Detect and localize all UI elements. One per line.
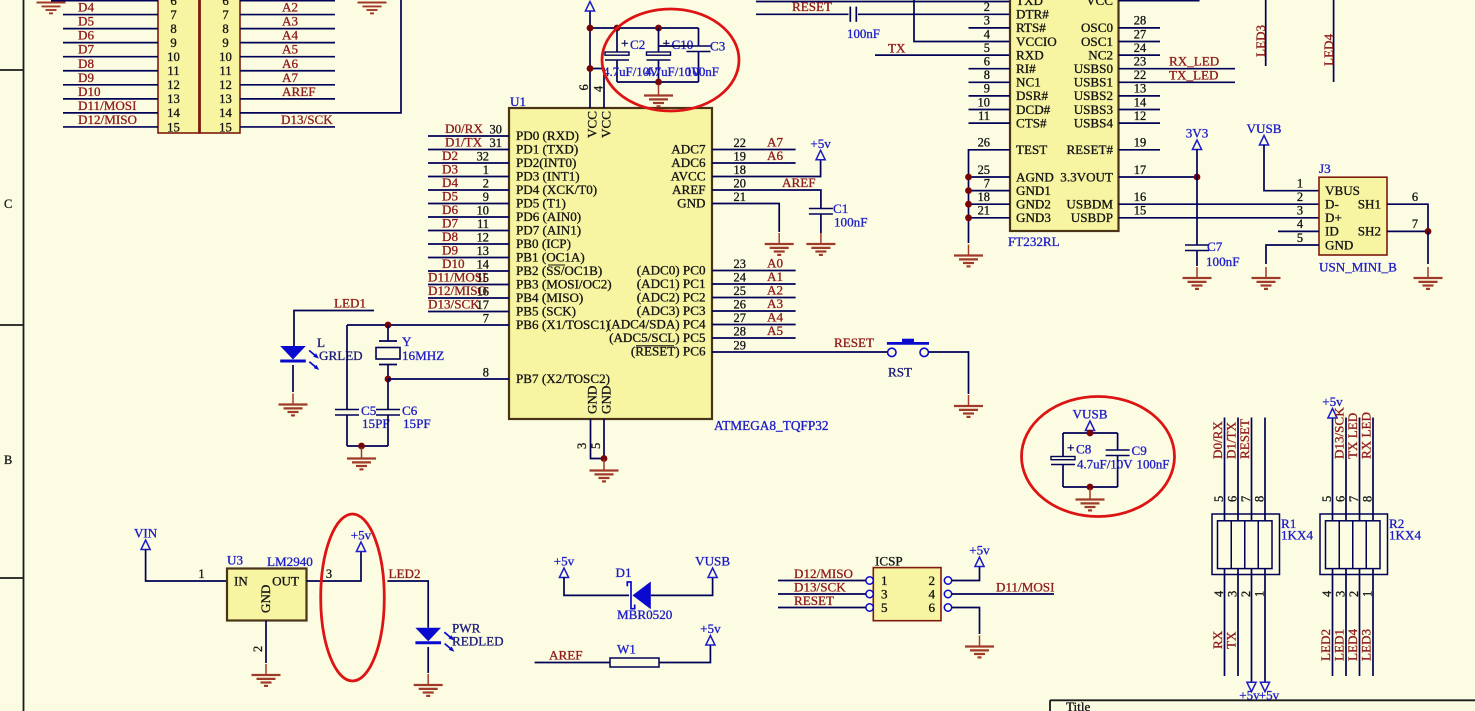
- svg-text:25: 25: [734, 284, 746, 298]
- svg-text:LED4: LED4: [1321, 34, 1336, 66]
- power +5v (U1 VCC, cut): [585, 2, 594, 12]
- connector P1 body (left half): [158, 0, 200, 133]
- wire R1 pin 5 top: [1224, 418, 1226, 521]
- svg-text:24: 24: [1134, 41, 1146, 55]
- svg-text:PB6 (X1/TOSC1): PB6 (X1/TOSC1): [516, 317, 610, 332]
- svg-text:D9: D9: [78, 70, 94, 85]
- svg-text:Title: Title: [1066, 699, 1090, 711]
- svg-text:19: 19: [1134, 136, 1146, 150]
- wire 3V3 to node: [1196, 149, 1198, 177]
- svg-text:16MHZ: 16MHZ: [402, 348, 444, 363]
- wire VUSB to VBUS: [1264, 145, 1319, 191]
- wire TEST to ground bus: [969, 150, 1011, 243]
- capacitor C7: [1185, 245, 1209, 251]
- wire C6 branch: [387, 379, 389, 410]
- ground (RST): [954, 395, 983, 417]
- wire R2 pin 7 top: [1359, 418, 1361, 521]
- ground (FT232): [954, 245, 983, 267]
- svg-text:15PF: 15PF: [403, 416, 431, 431]
- svg-text:13: 13: [219, 92, 232, 106]
- wire net D4: [63, 14, 158, 16]
- wire J3 GND: [1266, 245, 1319, 264]
- capacitor C3 horizontal tick and label: [659, 39, 726, 54]
- svg-text:+5v: +5v: [554, 554, 575, 569]
- wire net D12/MISO (U1 pin 16): [428, 297, 509, 299]
- svg-text:24: 24: [734, 271, 746, 285]
- wire stub FT232 USBS4: [1119, 122, 1161, 124]
- wire net LED3: [1265, 0, 1267, 66]
- svg-text:FT232RL: FT232RL: [1008, 234, 1060, 249]
- svg-text:17: 17: [1134, 163, 1146, 177]
- svg-text:7: 7: [483, 312, 489, 326]
- svg-text:VUSB: VUSB: [1073, 407, 1108, 422]
- svg-text:1: 1: [1253, 591, 1267, 597]
- capacitor values C8 C9: [1077, 458, 1169, 472]
- svg-text:9: 9: [984, 82, 990, 96]
- svg-text:REDLED: REDLED: [452, 634, 504, 649]
- svg-text:VCC: VCC: [1086, 0, 1113, 8]
- wire stub FT232 GND1: [969, 190, 1011, 192]
- LED PWR (REDLED): [415, 628, 454, 652]
- wire net A7: [240, 84, 335, 86]
- IC U2 FT232RL body: [1010, 0, 1119, 231]
- wire series cap to DTR#: [858, 13, 1010, 15]
- svg-text:8: 8: [984, 68, 990, 82]
- svg-text:3: 3: [1226, 591, 1240, 597]
- svg-text:8: 8: [1253, 496, 1267, 502]
- svg-text:USBDP: USBDP: [1071, 210, 1113, 225]
- regulator U3 body: [227, 569, 307, 621]
- svg-text:U3: U3: [227, 553, 243, 568]
- svg-text:AREF: AREF: [782, 175, 815, 190]
- svg-text:RESET: RESET: [792, 0, 832, 14]
- wire VIN to U3 IN: [146, 549, 227, 581]
- ground (J3 GND): [1252, 267, 1281, 289]
- wire C8 bottom: [1062, 465, 1064, 488]
- wire PB6 to crystal: [347, 324, 509, 326]
- wire R2 pin 8 top: [1372, 418, 1374, 521]
- svg-text:11: 11: [477, 217, 489, 231]
- svg-text:32: 32: [477, 150, 489, 164]
- svg-text:3: 3: [326, 567, 332, 581]
- svg-text:B: B: [4, 453, 12, 467]
- svg-text:D5: D5: [78, 14, 94, 29]
- wire net TX (FT232 RXD): [875, 54, 1010, 56]
- svg-text:30: 30: [490, 123, 502, 137]
- svg-text:ICSP: ICSP: [875, 554, 903, 569]
- svg-text:TX: TX: [1224, 631, 1239, 649]
- wire ICSP pin6 to ground: [952, 608, 980, 635]
- svg-text:3: 3: [1334, 591, 1348, 597]
- series capacitor 100nF (RESET): [850, 7, 856, 22]
- power +5v (AVCC): [816, 150, 825, 160]
- svg-text:1: 1: [1297, 177, 1303, 191]
- junction: [1194, 174, 1201, 181]
- wire net D5: [63, 28, 158, 30]
- wire net A2: [240, 14, 335, 16]
- svg-text:ATMEGA8_TQFP32: ATMEGA8_TQFP32: [714, 418, 829, 433]
- svg-text:3: 3: [1297, 204, 1303, 218]
- wire C2 bottom: [616, 60, 618, 82]
- wire stub FT232 CTS#: [969, 122, 1011, 124]
- wire AREF to W1: [535, 662, 610, 664]
- svg-text:U1: U1: [510, 94, 526, 109]
- svg-text:2: 2: [984, 0, 990, 14]
- wire D1 to VUSB: [651, 577, 713, 595]
- power +5v down (R1 pin 2): [1247, 682, 1256, 692]
- wire U1 GND pin 5: [603, 419, 605, 459]
- wire R1 pin 7 top: [1251, 418, 1253, 521]
- svg-text:10: 10: [477, 204, 489, 218]
- svg-text:RESET: RESET: [794, 593, 834, 608]
- svg-text:1: 1: [483, 163, 489, 177]
- svg-text:1: 1: [1361, 591, 1375, 597]
- ground (U3): [252, 664, 281, 686]
- svg-text:10: 10: [978, 95, 990, 109]
- svg-text:6: 6: [928, 600, 935, 615]
- power +5v: [559, 568, 568, 578]
- svg-text:10: 10: [219, 50, 232, 64]
- capacitor C5: [335, 410, 359, 416]
- svg-text:C7: C7: [1207, 239, 1223, 254]
- svg-text:TX_LED: TX_LED: [1169, 67, 1218, 82]
- svg-text:+5v: +5v: [969, 543, 990, 558]
- power +5v: [706, 636, 715, 646]
- wire R1 pin 8 top: [1264, 418, 1266, 521]
- svg-text:D4: D4: [78, 0, 94, 15]
- wire C5 to bottom: [346, 415, 348, 446]
- wire SH2: [1387, 230, 1428, 232]
- svg-text:6: 6: [577, 84, 591, 90]
- svg-text:D1: D1: [616, 565, 632, 580]
- svg-text:21: 21: [734, 190, 746, 204]
- svg-text:A4: A4: [282, 28, 298, 43]
- wire stub FT232 OSC0: [1119, 27, 1161, 29]
- U3 pin names: [234, 574, 299, 614]
- wire net A2 (U1 pin 25): [712, 297, 796, 299]
- svg-text:USBS4: USBS4: [1074, 115, 1114, 130]
- svg-text:5: 5: [881, 600, 888, 615]
- svg-text:D6: D6: [78, 28, 94, 43]
- wire 3.3VOUT: [1119, 176, 1198, 178]
- svg-text:C8: C8: [1076, 442, 1092, 457]
- svg-text:20: 20: [734, 177, 746, 191]
- svg-text:4: 4: [984, 27, 990, 41]
- wire R2 pin 1 bottom: [1372, 569, 1374, 676]
- svg-text:23: 23: [734, 257, 746, 271]
- junction: [655, 79, 662, 86]
- svg-text:C3: C3: [710, 39, 726, 54]
- svg-text:GND: GND: [258, 585, 273, 613]
- junction: [1087, 484, 1094, 491]
- svg-text:2: 2: [251, 646, 265, 652]
- wire W1 to +5v: [659, 645, 710, 663]
- wire U1 GND pin 21: [712, 204, 779, 233]
- wire VCCIO (FT232 pin 4): [914, 0, 1010, 42]
- svg-text:6: 6: [170, 0, 176, 8]
- capacitor C9: [1106, 450, 1130, 456]
- U1 PC6 RESET overline: [636, 345, 674, 347]
- wire net A0 (U1 pin 23): [712, 270, 796, 272]
- sheet frame border: [0, 0, 24, 711]
- svg-text:MBR0520: MBR0520: [617, 607, 673, 622]
- svg-text:+5v: +5v: [1259, 688, 1280, 703]
- svg-text:1KX4: 1KX4: [1389, 528, 1421, 543]
- capacitor C5 labels: [361, 403, 390, 431]
- capacitor C3: [687, 46, 711, 52]
- svg-text:PB7 (X2/TOSC2): PB7 (X2/TOSC2): [516, 371, 610, 386]
- svg-text:5: 5: [1320, 496, 1334, 502]
- svg-text:2: 2: [1239, 591, 1253, 597]
- svg-text:28: 28: [1134, 14, 1146, 28]
- svg-text:12: 12: [167, 78, 180, 92]
- wire: [240, 0, 401, 113]
- wire +5v to D1: [564, 577, 629, 595]
- svg-text:LM2940: LM2940: [267, 554, 313, 569]
- svg-text:D12/MISO: D12/MISO: [78, 112, 137, 127]
- wire net LED4: [1333, 0, 1335, 82]
- svg-text:GND: GND: [677, 196, 705, 211]
- wire C1 to ground: [820, 214, 822, 233]
- ground (top of connector, right): [358, 3, 387, 14]
- wire net D10: [63, 98, 158, 100]
- svg-text:9: 9: [483, 190, 489, 204]
- power 3V3: [1192, 140, 1201, 150]
- junction: [614, 25, 621, 32]
- svg-text:23: 23: [1134, 55, 1146, 69]
- svg-text:7: 7: [984, 176, 990, 190]
- svg-text:VCC: VCC: [599, 111, 614, 138]
- ground (LED1): [279, 394, 308, 416]
- wire net RESET (ICSP): [778, 607, 866, 609]
- J3 left pin names: [1325, 183, 1360, 252]
- svg-text:D7: D7: [78, 42, 94, 57]
- crystal Y1 16MHZ: [376, 325, 400, 379]
- wire C6 to bottom: [387, 415, 389, 446]
- svg-text:21: 21: [978, 204, 990, 218]
- wire C3 bottom: [698, 52, 700, 83]
- red highlight ellipse (C8/C9): [1022, 397, 1175, 517]
- U1 right pin names (upper): [671, 142, 706, 211]
- svg-text:+: +: [663, 36, 671, 51]
- svg-text:+: +: [621, 36, 629, 51]
- svg-text:LED1: LED1: [334, 296, 366, 311]
- junction: [385, 376, 392, 383]
- svg-text:7: 7: [1347, 496, 1361, 502]
- svg-text:VUSB: VUSB: [695, 554, 730, 569]
- svg-text:9: 9: [170, 36, 176, 50]
- wire stub FT232 USBS3: [1119, 109, 1161, 111]
- svg-text:31: 31: [490, 136, 502, 150]
- svg-text:4.7uF/10V: 4.7uF/10V: [1077, 458, 1133, 472]
- junction: [587, 25, 594, 32]
- svg-text:15PF: 15PF: [362, 416, 390, 431]
- wire VUSB to rail: [1089, 430, 1091, 433]
- wire shield to ground: [1427, 231, 1429, 264]
- svg-text:+5v: +5v: [1322, 394, 1343, 409]
- svg-text:27: 27: [1134, 27, 1146, 41]
- J3 right pin numbers: [1412, 190, 1418, 231]
- ICSP pin numbers: [881, 573, 935, 615]
- svg-text:12: 12: [477, 231, 489, 245]
- wire C8 top: [1062, 433, 1064, 457]
- diode D1 labels: [616, 565, 673, 622]
- svg-text:GND: GND: [585, 386, 600, 414]
- svg-text:CTS#: CTS#: [1016, 115, 1047, 130]
- capacitor values C2 C10 C3: [603, 65, 719, 79]
- diode D1 MBR0520: [627, 582, 651, 610]
- wire net AREF: [240, 98, 335, 100]
- wire U1 GND pin 3: [591, 419, 605, 459]
- resistor network R1 body: [1212, 514, 1280, 575]
- wire net D9: [63, 84, 158, 86]
- jumper W1: [610, 658, 659, 667]
- svg-text:AREF: AREF: [282, 84, 315, 99]
- svg-text:8: 8: [222, 22, 228, 36]
- wire stub FT232 RTS#: [969, 27, 1011, 29]
- wire net D0/RX (U1 pin 30): [428, 135, 509, 137]
- svg-text:13: 13: [1134, 82, 1146, 96]
- svg-text:22: 22: [734, 136, 746, 150]
- wire C7 to ground: [1196, 251, 1198, 267]
- wire net D9 (U1 pin 13): [428, 257, 509, 259]
- svg-text:C: C: [4, 197, 12, 211]
- wire net D1/TX (U1 pin 31): [428, 149, 509, 151]
- svg-text:Y: Y: [402, 334, 412, 349]
- svg-text:LED3: LED3: [1359, 629, 1374, 661]
- svg-text:100nF: 100nF: [1137, 458, 1170, 472]
- svg-text:11: 11: [167, 64, 179, 78]
- junction: [965, 214, 972, 221]
- wire net D4 (U1 pin 2): [428, 189, 509, 191]
- svg-text:SH2: SH2: [1358, 224, 1381, 239]
- wire C8/C9 top rail: [1063, 432, 1118, 434]
- wire net D3 (U1 pin 1): [428, 176, 509, 178]
- power +5v (R2): [1328, 409, 1337, 419]
- resistor network R2 body: [1320, 514, 1388, 575]
- wire C10 bottom: [658, 60, 660, 82]
- wire net LED1: [294, 311, 374, 347]
- wire stub FT232 NC1: [969, 81, 1011, 83]
- svg-text:VIN: VIN: [134, 526, 158, 541]
- svg-text:17: 17: [477, 298, 489, 312]
- junction: [358, 443, 365, 450]
- wire REDLED to ground: [427, 647, 429, 673]
- wire net D7: [63, 56, 158, 58]
- wire stub to ground: [361, 446, 363, 447]
- svg-text:9: 9: [222, 36, 228, 50]
- svg-text:12: 12: [219, 78, 232, 92]
- wire net A6: [240, 70, 335, 72]
- svg-text:14: 14: [167, 106, 180, 120]
- wire net D12/MISO: [63, 126, 158, 128]
- power VIN: [141, 540, 150, 550]
- wire pin6 right: [240, 0, 335, 2]
- wire R2 pin 2 bottom: [1359, 569, 1361, 676]
- wire USBDP to J3 D+: [1119, 217, 1320, 219]
- wire net D11/MOSI (ICSP): [952, 593, 1054, 595]
- svg-text:A5: A5: [767, 323, 783, 338]
- ground (C1): [806, 233, 835, 255]
- LED L (GRLED): [280, 346, 319, 370]
- ground (C7): [1183, 267, 1212, 289]
- resistor network R2 labels: [1389, 516, 1421, 543]
- wire SH1: [1387, 204, 1428, 231]
- svg-text:D10: D10: [78, 84, 101, 99]
- wire stub FT232 RI#: [969, 68, 1011, 70]
- wire pin6 left: [51, 0, 158, 2]
- svg-text:A5: A5: [282, 42, 298, 57]
- capacitor C7 labels: [1206, 239, 1239, 269]
- power +5v (U3 OUT): [356, 542, 365, 552]
- wire C5 branch: [346, 325, 348, 410]
- svg-text:GND: GND: [599, 386, 614, 414]
- wire net A6 (U1 pin 19): [712, 162, 796, 164]
- wire C9 top: [1117, 433, 1119, 450]
- wire net D12/MISO (ICSP): [778, 580, 866, 582]
- svg-text:IN: IN: [234, 574, 248, 589]
- svg-text:RESET#: RESET#: [1066, 142, 1113, 157]
- red highlight ellipse (C2/C10/C3): [602, 9, 739, 111]
- U1 left pin names: [516, 128, 612, 386]
- svg-text:RESET: RESET: [1237, 419, 1252, 459]
- wire net D13/SCK: [240, 126, 335, 128]
- wire net TX_LED: [1119, 81, 1236, 83]
- wire stub FT232 DCD#: [969, 109, 1011, 111]
- U1 right pin names (port C): [607, 263, 706, 359]
- wire net A7 (U1 pin 22): [712, 149, 796, 151]
- svg-text:+5v: +5v: [700, 621, 721, 636]
- svg-text:TX: TX: [888, 41, 906, 56]
- wire R2 pin 4 bottom: [1332, 569, 1334, 676]
- svg-text:6: 6: [984, 55, 990, 69]
- wire C2 top: [616, 28, 618, 52]
- ground (C5/C6): [347, 448, 376, 470]
- svg-text:15: 15: [219, 120, 232, 134]
- svg-text:AREF: AREF: [549, 648, 582, 663]
- svg-text:W1: W1: [617, 642, 636, 657]
- power VUSB: [708, 568, 717, 578]
- wire R1 pin 1 bottom: [1264, 569, 1266, 683]
- svg-text:6: 6: [222, 0, 228, 8]
- svg-text:4: 4: [1212, 591, 1226, 597]
- wire R2 pin 6 top: [1345, 418, 1347, 521]
- wire net A1 (U1 pin 24): [712, 283, 796, 285]
- svg-text:12: 12: [1134, 109, 1146, 123]
- wire ICSP pin2 to +5v: [952, 566, 980, 581]
- wire net D8: [63, 70, 158, 72]
- connector pin numbers (right half): [219, 0, 232, 134]
- wire net D11/MOSI: [63, 112, 158, 114]
- wire node to C7: [1196, 177, 1198, 245]
- wire net D10 (U1 pin 14): [428, 270, 509, 272]
- svg-text:D11/MOSI: D11/MOSI: [996, 580, 1054, 595]
- power +5v down (R1 pin 1): [1260, 682, 1269, 692]
- svg-text:100nF: 100nF: [834, 215, 867, 230]
- svg-text:6: 6: [1334, 496, 1348, 502]
- FT232 right pin numbers: [1134, 14, 1146, 218]
- svg-text:6: 6: [1226, 496, 1240, 502]
- wire net A4: [240, 42, 335, 44]
- svg-text:18: 18: [978, 190, 990, 204]
- ground (U1 pins 3,5): [590, 460, 619, 482]
- wire net RESET (U1 pin 29): [712, 351, 887, 353]
- wire +5v rail (cap cluster): [590, 27, 699, 29]
- ICSP pin circles: [866, 577, 952, 611]
- svg-text:RST: RST: [888, 365, 912, 380]
- junction: [385, 322, 392, 329]
- ground (top-left): [37, 3, 66, 14]
